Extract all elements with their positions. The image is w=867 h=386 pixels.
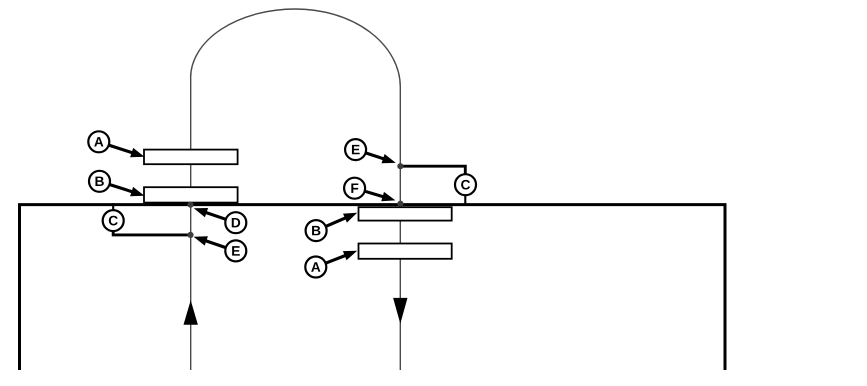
left gray vertical wire (hot leg) [190,78,192,370]
callout A-left arrow [109,145,145,157]
callout circle F-right [344,178,365,199]
left C stub from box top [112,203,114,210]
callout D-left arrow [194,208,226,219]
node at right wire / box top junction [397,201,403,207]
callout B-left arrow [110,185,145,197]
right gray vertical wire (return leg) [399,87,401,370]
right rectangle A (lower block) [359,244,452,259]
callout circle E-right [345,139,366,160]
callout circle C-right [455,174,476,195]
left rectangle B (lower block) [144,187,238,202]
callout B-right arrow [326,213,358,227]
left C lower link wire to node [113,230,190,235]
callout circle B-left [89,171,110,192]
right rectangle B (upper block) [359,207,452,220]
node at right wire / C link junction [397,163,403,169]
node at left wire / box top junction [187,202,193,208]
right C stub to box top [464,195,466,204]
arch loop at top [191,9,401,87]
enclosure box (top and sides, open bottom) [20,205,726,370]
downward flow arrowhead on right wire [393,298,407,324]
callout circle E-left [225,240,246,261]
node at left wire / C link junction [187,232,193,238]
left rectangle A (upper block) [144,150,238,165]
callout F-right arrow [365,191,396,201]
right C link wire from node [400,166,465,174]
callout E-left arrow [194,236,226,247]
upward flow arrowhead on left wire [184,300,198,325]
callout circle B-right [306,220,327,241]
callout circle D-left [225,212,246,233]
callout circle A-right [305,257,326,278]
callout circle C-left [103,210,124,231]
callout circle A-left [88,131,109,152]
callout E-right arrow [366,153,396,163]
callout A-right arrow [326,251,358,263]
